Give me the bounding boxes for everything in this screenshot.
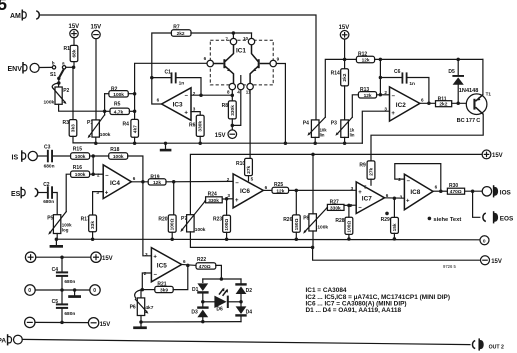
svg-text:9726 5: 9726 5 [443,264,456,269]
wire AM top line [39,15,316,120]
svg-text:330k: 330k [330,205,341,211]
svg-text:6: 6 [265,185,268,190]
wire T1 collector to R9 line [371,114,483,161]
svg-text:3: 3 [193,106,196,111]
op-amp IC2 [390,87,420,121]
svg-text:470Ω: 470Ω [450,189,462,195]
wire R11 to T1 base [452,102,474,104]
wire P8 top from +15V rail [312,154,314,213]
svg-text:5: 5 [251,176,254,181]
svg-text:6: 6 [133,176,136,181]
svg-text:C6: C6 [394,69,401,75]
op-amp IC8 [404,174,433,210]
svg-text:2: 2 [350,203,353,208]
svg-text:R15: R15 [73,147,82,153]
svg-text:3k9: 3k9 [160,288,168,294]
wire R21 feedback to IC5 output [173,265,188,289]
wire IC5 pin2 to R21 node [142,273,151,290]
connector plug ES [21,187,25,199]
svg-text:R9: R9 [359,163,366,169]
svg-text:lin: lin [350,133,355,138]
bridge top wire [203,278,241,280]
wire IC4 pin3 to R17 [93,192,104,215]
wire node a down to R3 [72,67,74,119]
jack circle ENV [30,63,39,72]
svg-text:b: b [52,60,55,65]
wire R30 to IOS [465,190,483,192]
svg-text:D3: D3 [191,310,198,316]
svg-text:IC5: IC5 [157,262,167,269]
svg-text:1n: 1n [179,81,185,87]
svg-text:100k: 100k [44,99,55,105]
svg-text:330k: 330k [208,198,219,204]
svg-text:100k: 100k [113,154,124,160]
svg-text:3: 3 [351,186,354,191]
ground symbol on 0V row [74,290,76,295]
IC1 dashed package outline [210,40,273,85]
svg-text:4k7: 4k7 [145,305,153,311]
svg-text:100Ω: 100Ω [170,218,176,230]
wire IC5 output to R22 [182,264,196,267]
svg-text:IC4: IC4 [110,180,120,187]
wire ENV to contact b [39,66,52,68]
svg-text:12k: 12k [364,93,372,99]
svg-text:IC7: IC7 [362,196,372,203]
ground symbol below P6 [140,322,142,326]
wire C2 to P5 [53,193,57,215]
svg-text:2k2: 2k2 [177,31,185,37]
svg-text:lin: lin [320,133,325,138]
wire P1 bottom to ground rail [95,137,97,143]
wire IC1 pin11 down to R10 [249,90,251,159]
svg-text:+: + [235,198,239,204]
svg-text:5: 5 [364,184,367,189]
svg-text:100k: 100k [75,172,86,178]
svg-text:R1: R1 [64,46,71,52]
svg-text:15V: 15V [215,133,226,139]
svg-text:ENV: ENV [8,66,23,73]
node C1 tap [150,76,154,80]
connector plug IS [22,150,26,162]
svg-text:R29: R29 [381,217,390,223]
wire y59 P4 wiper to R12 and T1 emitter [325,59,356,117]
wire R10 to IC6 pin5 [248,176,250,181]
svg-text:68k: 68k [72,49,78,57]
connector plug OUT2 [479,340,484,350]
svg-text:12k: 12k [153,180,161,186]
jack circle IS [28,151,37,160]
svg-text:+: + [184,111,188,117]
svg-text:EOS: EOS [500,216,514,223]
svg-text:6: 6 [421,97,424,102]
svg-text:D1 ... D4 = OA91, AA119, AA118: D1 ... D4 = OA91, AA119, AA118 [306,307,402,314]
svg-text:4k7: 4k7 [132,125,138,133]
connector plug IOS [494,187,498,196]
svg-text:P6: P6 [130,305,136,311]
wire IC6 pin3 [227,198,234,200]
svg-text:D6: D6 [216,306,223,312]
svg-text:12k: 12k [276,188,284,194]
wire +15V down to R14 [344,39,346,69]
svg-text:9: 9 [277,57,280,62]
svg-text:C2: C2 [43,182,50,188]
socket arc OUT2 [472,341,475,349]
connector plug EOS [494,213,498,222]
wire PA to OUT2 [22,339,470,344]
svg-text:R20: R20 [158,216,167,222]
svg-text:15V: 15V [100,322,111,328]
supply decoupling row +15V [25,252,35,262]
svg-text:2: 2 [97,173,100,178]
svg-text:IC2: IC2 [396,102,406,109]
ground rail upper (y=143.3) [96,142,363,144]
svg-text:OUT 2: OUT 2 [489,344,504,350]
wire IC3 pin2 to IC1 pin8 [191,94,232,96]
svg-text:2k2: 2k2 [439,102,447,108]
svg-text:P3: P3 [331,120,337,126]
0V circle right [480,236,489,245]
svg-text:6: 6 [386,193,389,198]
svg-text:+: + [406,199,410,205]
svg-text:5: 5 [0,0,7,14]
wire to EOS [473,191,480,217]
bullet siehe text marker at R29 [385,212,389,216]
svg-text:6: 6 [204,56,207,61]
svg-text:R26: R26 [283,217,292,223]
op-amp IC3 [162,88,191,121]
wire IC3 output up to R7 [152,33,172,104]
svg-text:+: + [391,111,395,117]
bridge bottom wire to P6 ground node [141,321,241,323]
svg-text:P5: P5 [47,216,53,222]
transistor Q left inside IC1 [213,45,233,84]
svg-text:P2: P2 [63,88,69,94]
svg-text:0: 0 [483,238,486,244]
wire IC4 out node down to IC5 pin3 [143,182,152,256]
svg-text:100Ω: 100Ω [346,221,352,233]
wire P6 bottom to ground [140,316,142,323]
socket arc EOS [483,213,486,221]
svg-text:15V: 15V [492,153,503,159]
svg-text:ES: ES [11,191,21,198]
svg-text:470Ω: 470Ω [199,264,211,270]
svg-text:27k: 27k [369,167,375,175]
svg-text:IOS: IOS [500,190,512,197]
op-amp IC7 [356,182,384,214]
wire R22 to bridge top [216,265,222,279]
node junction under R1 [72,66,76,70]
svg-text:680n: 680n [64,279,75,285]
svg-text:4,7k: 4,7k [114,109,124,115]
svg-text:100k: 100k [317,225,328,231]
wire P7 bottom to -15V line [190,232,312,248]
svg-text:100Ω: 100Ω [224,219,230,231]
supply decoupling row 0V [25,285,35,295]
svg-text:2: 2 [227,177,230,182]
svg-text:6: 6 [435,185,438,190]
svg-text:R18: R18 [110,147,119,153]
svg-text:R3: R3 [63,120,70,126]
svg-text:R6: R6 [189,122,196,128]
svg-text:0: 0 [28,288,31,294]
op-amp IC6 [233,174,263,208]
svg-text:S1: S1 [50,72,56,78]
op-amp IC4 [103,165,131,199]
svg-text:AM: AM [10,13,21,20]
wire R18 feedback to output node [128,156,143,182]
jack circle PA [14,335,23,344]
-15V circle right [481,256,490,265]
transistor Q right inside IC1 [250,45,270,84]
wire IC1 pin8 to R8 [231,90,233,101]
svg-text:6: 6 [183,259,186,264]
svg-text:+: + [105,190,109,196]
svg-text:2: 2 [384,90,387,95]
svg-text:3k3: 3k3 [71,124,77,132]
svg-text:1n: 1n [409,81,415,87]
node P2/R5/P1 wiper junction [103,109,107,113]
wire P3 wiper up to R13 [352,95,358,117]
ground symbol on upper rail [164,142,167,145]
svg-text:T1: T1 [486,91,492,96]
socket arc ES [35,188,38,196]
supply decoupling row -15V [25,317,35,327]
svg-text:IC3: IC3 [173,102,183,109]
svg-text:7: 7 [225,36,228,41]
wire pin2 node vertical [379,59,381,94]
wire R7 to IC1 top pins [191,32,252,34]
svg-text:680n: 680n [44,163,55,169]
wire P5 wiper up to R16 [66,174,70,211]
wire R8 to -15V [231,119,233,130]
svg-text:15k: 15k [392,223,398,231]
svg-text:PA: PA [0,337,6,344]
wire P5 bottom to ground [56,234,58,240]
svg-text:+: + [153,255,157,261]
parts list text block [306,287,451,314]
svg-text:R16: R16 [73,165,82,171]
svg-text:R5: R5 [114,102,121,108]
svg-text:100k: 100k [75,154,86,160]
svg-text:15V: 15V [491,259,502,265]
svg-text:IC6: IC6 [240,188,250,195]
wire R19 to IC6 pin2 [166,180,233,182]
svg-text:D5: D5 [448,69,455,75]
connector plug ENV [23,62,27,74]
svg-text:a: a [62,61,65,66]
wire R13 to IC2 pin2 [377,94,390,96]
siehe Text note [428,217,432,221]
wire IC8 feedback loop [395,164,441,192]
svg-text:100k: 100k [113,92,124,98]
svg-text:150Ω: 150Ω [294,218,300,230]
svg-text:6: 6 [157,98,160,103]
svg-text:siehe Text: siehe Text [433,217,461,223]
wire IC4 output [131,181,148,183]
wire IC7 output to IC8 pin3 [385,197,405,199]
wire IC8 output [433,190,447,192]
wire IC1 pin9 to ground rail [276,64,285,144]
svg-text:100k: 100k [100,132,111,138]
svg-text:33k: 33k [90,221,96,229]
svg-text:R8: R8 [222,103,229,109]
wire R3 bottom to ground rail [73,136,96,143]
wire P8 bottom to -15V jog [312,231,314,247]
jack circle IOS [482,187,491,196]
wire IC1 pin6 net vertical [135,63,207,119]
svg-text:BC 177 C: BC 177 C [457,118,481,124]
svg-text:330k: 330k [230,105,236,116]
svg-text:15V: 15V [91,25,102,31]
wire IC2 output [420,102,436,104]
ground symbol below P5 [55,239,57,245]
svg-text:IC8: IC8 [410,189,420,196]
wire R25 to IC7 pin3 [289,189,357,191]
svg-text:R4: R4 [123,122,130,128]
wire R1 to node a [73,62,75,68]
svg-text:IC1: IC1 [236,47,246,54]
svg-text:12k: 12k [362,58,370,64]
svg-text:2k2: 2k2 [342,73,348,81]
svg-text:3: 3 [96,190,99,195]
socket arc AM [36,11,39,19]
wire R27 to IC7 pin2 [344,204,356,206]
svg-text:680n: 680n [43,199,54,205]
wire -15V down to P1 top [95,39,97,120]
svg-text:+: + [358,190,362,196]
ground rail lower (y=239) [56,238,480,241]
svg-text:R23: R23 [213,216,222,222]
wire IC1 pin4 jog [232,90,241,126]
svg-text:R28: R28 [335,218,344,224]
svg-text:C3: C3 [44,144,51,150]
svg-text:27k: 27k [246,165,252,173]
svg-text:log: log [62,228,69,233]
wire IC3 pin3 to R6 [191,112,200,116]
svg-text:1N4148: 1N4148 [459,88,479,94]
wire IC2 pin3 to ground rail [362,111,389,143]
svg-text:3: 3 [400,195,403,200]
wire R9 to IC7 pin5 [370,179,372,185]
svg-text:100k: 100k [195,227,206,233]
svg-text:8: 8 [227,90,230,95]
svg-text:3: 3 [227,193,230,198]
wire +15V rail to P7 [190,154,482,214]
svg-text:0: 0 [93,288,96,294]
IC1 pin4 stub [240,76,242,84]
svg-text:P4: P4 [303,120,309,126]
connector plug AM [22,10,26,21]
wire R20 tap [173,182,175,215]
wire P2 bottom to node row [59,104,105,111]
svg-text:680n: 680n [64,311,75,317]
wire C1 to IC3 pin2 line [177,78,201,96]
op-amp IC5 [151,248,181,282]
svg-text:C1: C1 [165,70,172,76]
svg-text:15V: 15V [102,256,113,262]
wire +15V to R1 [73,38,75,46]
svg-text:10: 10 [243,36,249,41]
wire R14 to P3 top [344,86,346,120]
wire IC6 output [263,189,272,191]
svg-text:R14: R14 [331,70,340,76]
svg-text:330k: 330k [198,121,204,132]
connector plug PA [8,334,12,345]
svg-text:IS: IS [12,154,19,161]
svg-text:D2: D2 [246,288,253,294]
svg-text:4: 4 [237,90,240,95]
